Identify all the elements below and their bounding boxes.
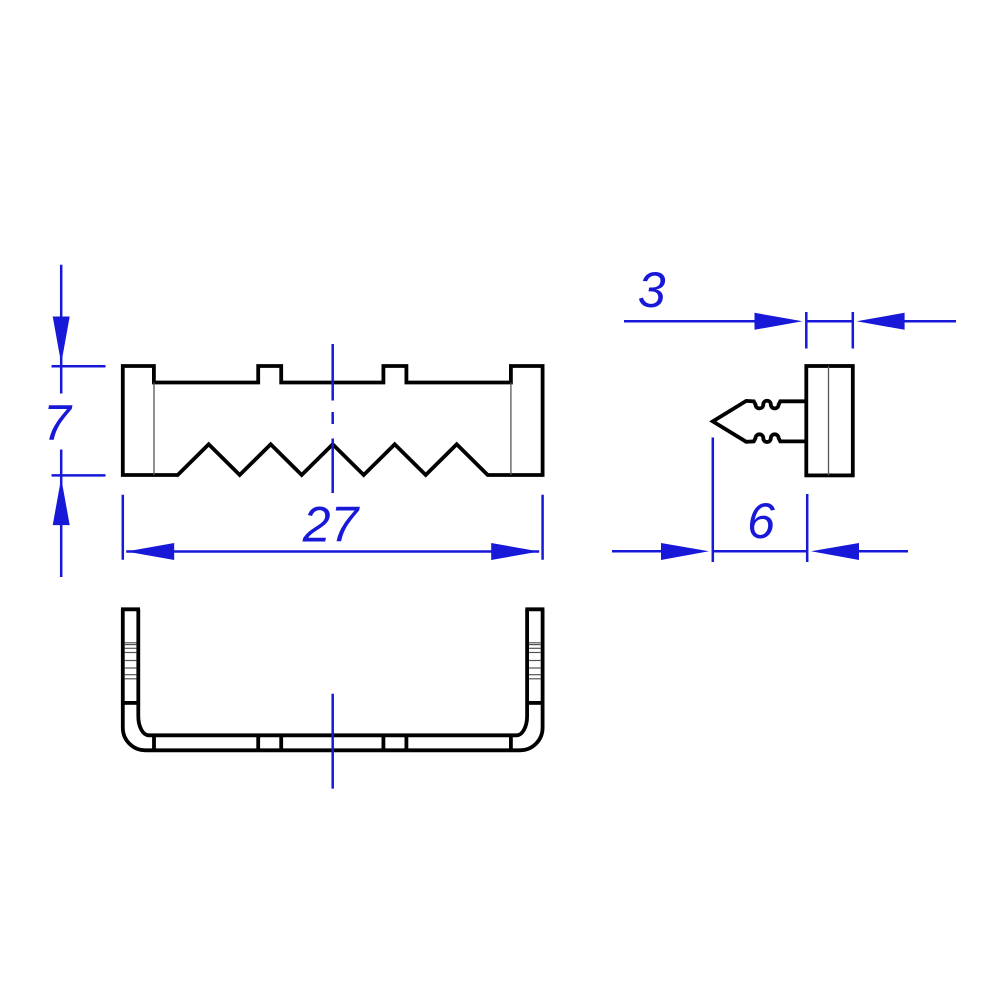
- svg-text:6: 6: [747, 493, 775, 549]
- svg-text:3: 3: [638, 262, 666, 318]
- svg-text:27: 27: [302, 497, 361, 553]
- svg-text:7: 7: [43, 395, 73, 451]
